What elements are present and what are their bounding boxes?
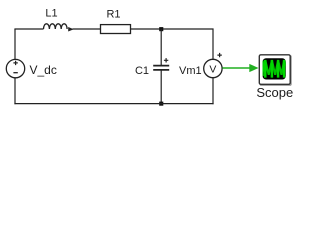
wire: voltmeter bottom to bottom rail [212,78,214,105]
svg-text:L1: L1 [45,8,57,20]
scope block [259,55,291,85]
resistor R1 [101,25,131,34]
svg-text:V: V [209,63,216,75]
node: top junction [159,27,163,31]
svg-text:C1: C1 [135,65,149,77]
node: bottom junction [159,102,163,106]
wire: junction down to capacitor [160,29,162,65]
svg-text:Vm1: Vm1 [179,65,202,77]
wire: inductor to resistor [73,28,101,30]
signal wire (green) voltmeter to scope [222,64,258,72]
svg-text:V_dc: V_dc [30,63,57,77]
wire: top rail left segment to inductor [14,28,43,30]
wire: bottom rail [14,103,213,105]
voltage source V_dc [6,59,24,77]
voltmeter Vm1 [204,53,222,78]
wire: top-left vertical from source to top rail [14,29,16,60]
wire: source bottom to bottom rail [14,78,16,105]
scope waveform [262,60,285,78]
svg-text:Scope: Scope [256,85,293,100]
inductor L1 [44,24,74,32]
wire: resistor to top-right corner and down to voltmeter [131,29,213,60]
svg-text:R1: R1 [106,9,120,21]
capacitor C1 [153,58,169,70]
wire: capacitor to bottom junction [160,71,162,104]
